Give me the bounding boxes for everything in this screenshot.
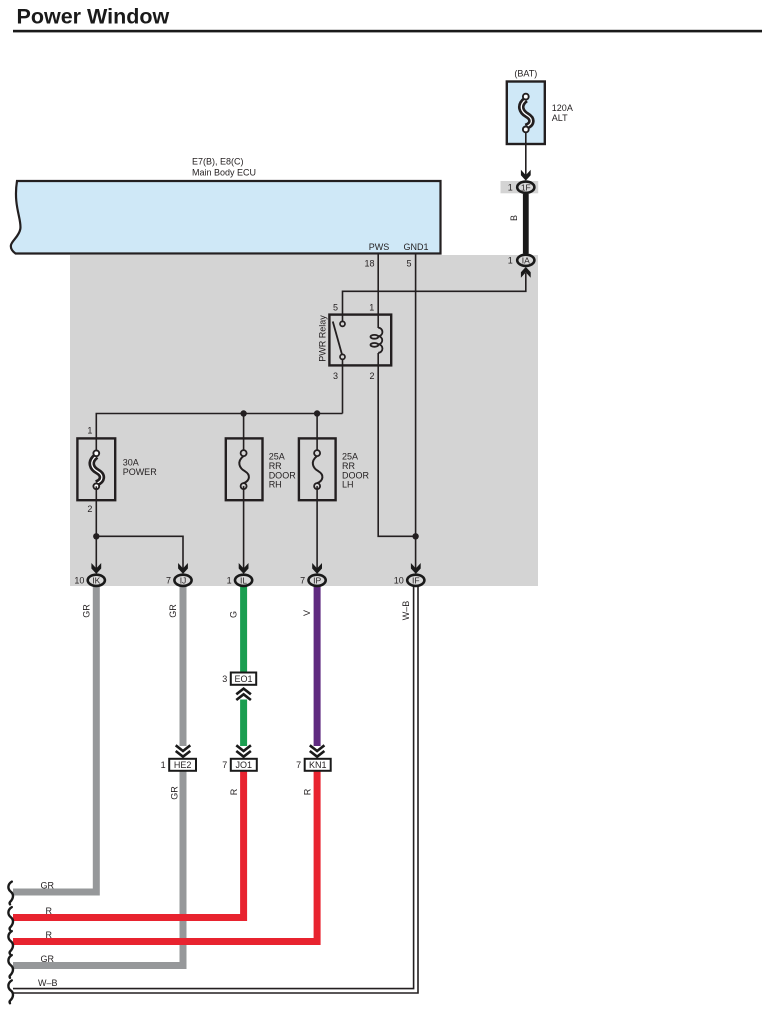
svg-text:GR: GR — [81, 604, 91, 618]
relay switch arm — [333, 322, 342, 355]
svg-text:GR: GR — [41, 880, 55, 890]
wire RR DOOR LH fuse to IP — [316, 486, 318, 568]
page-edge squiggle R 3 — [8, 931, 13, 954]
svg-text:2: 2 — [87, 504, 92, 514]
svg-text:E7(B), E8(C): E7(B), E8(C) — [192, 157, 244, 167]
arrow into IJ — [178, 563, 188, 574]
wire RR DOOR RH fuse to IL — [243, 486, 245, 568]
connector HE2 — [161, 759, 196, 771]
svg-text:RH: RH — [269, 480, 282, 490]
wire B (thick black) — [523, 194, 529, 254]
svg-text:IP: IP — [313, 576, 321, 586]
svg-text:IJ: IJ — [180, 576, 187, 586]
page-edge squiggle W-B 5 — [8, 980, 13, 1003]
svg-text:Main Body ECU: Main Body ECU — [192, 168, 256, 178]
svg-text:GR: GR — [170, 786, 180, 800]
connector band 1F — [501, 181, 539, 193]
svg-text:1: 1 — [227, 576, 232, 586]
wire R from KN1 — [13, 771, 317, 942]
node junction bus / RR DOOR RH — [240, 410, 246, 416]
svg-text:1F: 1F — [521, 183, 531, 193]
svg-text:G: G — [229, 611, 239, 618]
svg-text:18: 18 — [364, 259, 374, 269]
svg-text:RR: RR — [342, 461, 355, 471]
svg-text:B: B — [509, 215, 519, 221]
wire G from IL — [240, 585, 247, 673]
node junction 30A / IJ branch — [93, 533, 99, 539]
wire branch to IJ — [96, 536, 183, 568]
svg-text:HE2: HE2 — [174, 760, 192, 770]
wire GND1 pin 5 down to IF — [415, 254, 417, 569]
svg-text:POWER: POWER — [123, 467, 158, 477]
wire GR from IJ upper — [180, 585, 187, 746]
svg-text:ALT: ALT — [552, 113, 568, 123]
wire G below EO1 — [240, 700, 247, 747]
svg-text:3: 3 — [333, 371, 338, 381]
arrow into IK — [91, 563, 101, 574]
svg-text:120A: 120A — [552, 103, 573, 113]
chevron up below EO1 — [236, 689, 251, 700]
wire RR DOOR RH fuse top — [243, 414, 245, 451]
wire relay pin 3 to fuse bus — [342, 360, 344, 414]
connector 1F — [508, 182, 535, 193]
relay PWR Relay — [317, 303, 391, 381]
svg-text:IK: IK — [92, 576, 100, 586]
wire relay pin 2 to GND junction — [378, 353, 415, 536]
page-edge squiggle R 2 — [8, 907, 13, 930]
ECU ground-plane gray box — [70, 255, 538, 586]
wire W-B from IF — [13, 585, 416, 991]
svg-text:1: 1 — [87, 426, 92, 436]
svg-text:(BAT): (BAT) — [514, 69, 537, 79]
arrow into IF — [411, 563, 421, 574]
svg-text:7: 7 — [296, 760, 301, 770]
svg-text:R: R — [229, 788, 239, 795]
svg-text:PWS: PWS — [369, 242, 390, 252]
svg-text:1: 1 — [369, 303, 374, 313]
arrow up into IA — [521, 267, 531, 278]
svg-text:IL: IL — [240, 576, 247, 586]
connector IA — [508, 255, 535, 266]
arrow into IL — [239, 563, 249, 574]
svg-text:2: 2 — [369, 371, 374, 381]
wire GR from IK — [13, 585, 96, 892]
svg-text:JO1: JO1 — [236, 760, 253, 770]
chevron down above JO1 — [236, 745, 251, 756]
svg-text:R: R — [46, 906, 53, 916]
Main Body ECU box E7(B), E8(C) — [11, 157, 441, 254]
wire ALT fuse to 1F — [525, 132, 527, 175]
arrow into IP — [312, 563, 322, 574]
svg-text:7: 7 — [300, 576, 305, 586]
arrow into 1F — [521, 170, 531, 181]
wire GR from HE2 lower — [13, 771, 183, 966]
page-edge squiggle GR 4 — [8, 955, 13, 978]
fuse ALT 120A (fusible link) — [507, 69, 573, 145]
wire IA to relay pin 5 — [343, 273, 526, 322]
connector IK — [74, 575, 105, 586]
svg-text:1: 1 — [508, 183, 513, 193]
wire R from JO1 — [13, 771, 244, 918]
node junction bus / RR DOOR LH — [314, 410, 320, 416]
svg-text:IF: IF — [412, 576, 420, 586]
wire PWS pin 18 to relay coil — [377, 254, 379, 328]
connector IP — [300, 575, 326, 586]
wire 30A fuse to IK — [95, 486, 97, 568]
wire RR DOOR LH fuse top — [316, 414, 318, 451]
svg-text:3: 3 — [222, 674, 227, 684]
svg-text:GND1: GND1 — [403, 242, 428, 252]
chevron down above HE2 — [176, 745, 191, 756]
connector IL — [227, 575, 253, 586]
svg-text:W–B: W–B — [401, 601, 411, 621]
page-edge squiggle GR 1 — [8, 882, 13, 905]
svg-text:1: 1 — [508, 256, 513, 266]
connector JO1 — [222, 759, 257, 771]
relay coil — [378, 328, 382, 353]
svg-text:GR: GR — [41, 954, 55, 964]
svg-text:R: R — [302, 788, 312, 795]
connector IF — [394, 575, 425, 586]
svg-text:EO1: EO1 — [234, 674, 252, 684]
svg-text:LH: LH — [342, 480, 354, 490]
svg-text:7: 7 — [222, 760, 227, 770]
title rule — [13, 30, 762, 33]
svg-text:5: 5 — [333, 303, 338, 313]
wire V from IP — [314, 585, 321, 746]
svg-text:GR: GR — [168, 604, 178, 618]
fuse 25A RR DOOR LH — [299, 438, 370, 500]
svg-text:7: 7 — [166, 576, 171, 586]
svg-text:W–B: W–B — [38, 978, 58, 988]
svg-text:IA: IA — [522, 256, 530, 266]
svg-text:1: 1 — [161, 760, 166, 770]
svg-text:Power Window: Power Window — [17, 5, 170, 29]
svg-text:5: 5 — [406, 259, 411, 269]
chevron down above KN1 — [310, 745, 325, 756]
node junction GND1 / relay coil — [412, 533, 418, 539]
fuse 25A RR DOOR RH — [226, 438, 296, 500]
connector EO1 — [222, 673, 256, 685]
svg-text:R: R — [46, 930, 53, 940]
connector KN1 — [296, 759, 331, 771]
svg-text:10: 10 — [394, 576, 404, 586]
svg-text:RR: RR — [269, 461, 282, 471]
svg-text:V: V — [302, 610, 312, 616]
connector IJ — [166, 575, 192, 586]
fuse 30A POWER (fusible link) — [77, 426, 157, 514]
svg-text:KN1: KN1 — [309, 760, 327, 770]
wire fuse bus — [96, 414, 342, 454]
svg-text:10: 10 — [74, 576, 84, 586]
svg-text:PWR Relay: PWR Relay — [317, 315, 327, 362]
